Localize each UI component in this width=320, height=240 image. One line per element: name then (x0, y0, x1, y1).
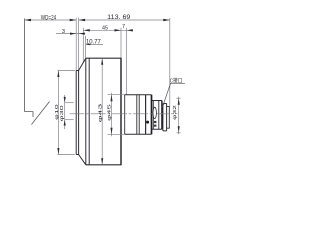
front bezel ring phi30 (76, 71, 78, 155)
wire arrow 10.77 leader (86, 44, 91, 46)
svg-text:113. 69: 113. 69 (107, 14, 130, 21)
svg-text:φ32: φ32 (172, 105, 177, 120)
wire leader line C-mount (162, 83, 184, 107)
wire extension line x=120.8 above body (120, 28, 122, 58)
node object-plane vertical line (24, 19, 26, 112)
wire arrow phi10 bottom outside (64, 120, 66, 126)
wire barrel B right face x=161.9 (161, 101, 163, 130)
wire phi32 tick bottom (176, 132, 180, 134)
wire barrel B inner line x=158.8 (158, 101, 160, 130)
wire barrel A left face (124, 95, 126, 135)
wire barrel A right face x=151.5 (151, 95, 153, 135)
wire barrel B inner line x=153.3 (152, 101, 154, 130)
wire extension line right end x=169.8 (169, 18, 171, 106)
wire object-plane break diagonal (32, 102, 50, 125)
wire phi43 dimension line (101, 58, 103, 165)
svg-text:φ43: φ43 (98, 103, 103, 123)
set screw dot on barrel A (146, 121, 149, 124)
svg-text:7: 7 (122, 24, 125, 30)
wire phi30 dimension line (57, 71, 59, 155)
svg-text:φ45: φ45 (107, 103, 112, 120)
tiny screw below oval bottom part (154, 125, 156, 127)
wire phi10 dimension line (64, 95, 66, 129)
wire barrel A joint x=145.6 (145, 95, 147, 135)
wire arrow 45 right (115, 29, 122, 31)
wire phi32 dimension line (178, 97, 180, 135)
wire dimension underline 10.77 (86, 43, 103, 45)
wire arrow phi32 top (178, 98, 180, 105)
wire arrow 45 left (83, 29, 90, 31)
wire object-plane break jog (25, 112, 34, 117)
wire extension line x=78.6 above bezel (78, 18, 80, 71)
wire arrow phi32 bottom (178, 126, 180, 133)
svg-text:45: 45 (102, 26, 108, 32)
wire phi45 extension top (108, 94, 125, 96)
svg-text:φ10: φ10 (54, 104, 59, 120)
wire phi30 extension bottom (58, 154, 75, 156)
svg-text:WD=24: WD=24 (41, 15, 57, 21)
C-mount flange ring (163, 104, 167, 131)
wire phi10 extension top (65, 102, 74, 104)
svg-text:3: 3 (62, 29, 65, 35)
wire dimension line 45 and 7 (83, 29, 133, 31)
wire dimension line WD=24 (25, 19, 77, 21)
wire extension line x=126.6 for dim 7 (126, 28, 128, 95)
wire body rear face thick (120, 58, 122, 165)
wire phi45 extension bottom (108, 133, 125, 135)
wire arrow WD=24 right (70, 19, 77, 21)
wire arrow phi43 bottom (101, 158, 103, 165)
svg-text:φ30: φ30 (59, 105, 64, 122)
wire phi45 dimension line (111, 93, 113, 137)
wire dimension line 113.69 (79, 19, 170, 21)
wire arrow 7 right outside (127, 29, 133, 31)
wire arrow phi45 bottom (110, 128, 112, 135)
wire arrow 113.69 left (79, 19, 86, 21)
wire body joint line x=89.2 (88, 58, 90, 165)
node optical axis centerline (70, 113, 178, 115)
wire barrel A groove x=136.8 (136, 95, 138, 135)
wire extension line x=83.3 (82, 28, 84, 63)
C-mount thread stub (167, 106, 170, 128)
wire body edge line x=85.8 (85, 58, 87, 165)
tiny screw below oval top part (154, 121, 156, 123)
wire arrow phi10 top outside (64, 97, 66, 103)
wire chamfer top (79, 58, 86, 70)
wire barrel A groove x=139.2 (138, 95, 140, 135)
wire extension line 10.77 x=85.6 (85, 36, 87, 58)
rear barrel B phi32 (152, 101, 162, 130)
svg-text:C接口: C接口 (170, 77, 183, 85)
wire arrow phi30 top (57, 71, 59, 78)
rear barrel A phi45 focus ring (125, 95, 152, 135)
wire phi32 tick top (176, 97, 180, 99)
wire dimension line 3 (56, 33, 85, 35)
wire arrow 3 left outside (70, 32, 76, 34)
wire arrow 113.69 right (163, 19, 170, 21)
wire chamfer bottom (79, 155, 86, 165)
wire arrow 3 right outside (79, 32, 85, 34)
wire extension line x=76.2 above bezel (75, 18, 77, 71)
wire arrow phi30 bottom (57, 148, 59, 155)
wire arrow phi45 top (110, 95, 112, 102)
main lens body phi43 outline (86, 58, 121, 165)
wire arrow leader tip (162, 103, 164, 107)
wire arrow phi43 top (101, 58, 103, 64)
svg-text:10.77: 10.77 (86, 38, 101, 45)
wire phi30 extension top (58, 70, 75, 72)
wire phi10 extension bottom (65, 119, 74, 121)
wire arrow WD=24 left (25, 19, 32, 21)
slot oval on barrel B (153, 107, 156, 118)
